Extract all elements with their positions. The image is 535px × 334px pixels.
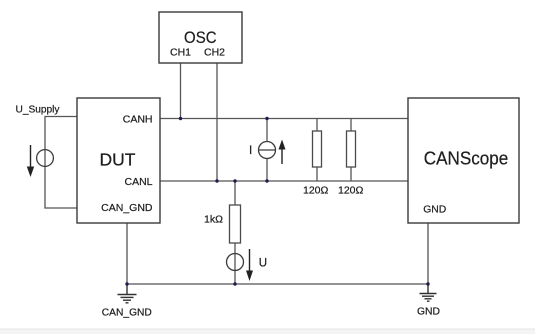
wire DUT CAN_GND pin to rail bbox=[126, 223, 128, 284]
svg-text:120Ω: 120Ω bbox=[338, 185, 364, 197]
svg-text:OSC: OSC bbox=[184, 28, 217, 47]
junction node I/CANL bbox=[265, 179, 268, 182]
current source I (circle with bar) bbox=[259, 142, 276, 159]
arrow I direction (up) bbox=[279, 140, 286, 165]
svg-text:CANL: CANL bbox=[124, 176, 152, 188]
svg-text:I: I bbox=[249, 145, 252, 157]
svg-text:CH2: CH2 bbox=[204, 47, 225, 59]
svg-text:GND: GND bbox=[423, 204, 446, 216]
box DUT bbox=[77, 98, 160, 223]
svg-text:CANH: CANH bbox=[123, 114, 153, 126]
wire CH1 to CANH bbox=[180, 63, 182, 119]
ground CAN_GND symbol bbox=[118, 284, 137, 303]
junction node I/CANH bbox=[265, 117, 268, 120]
svg-text:DUT: DUT bbox=[100, 150, 136, 170]
junction node U/rail bbox=[233, 282, 236, 285]
resistor R1 120ohm bbox=[313, 119, 322, 182]
resistor R3 1kohm bbox=[230, 205, 241, 243]
svg-text:GND: GND bbox=[417, 306, 440, 318]
wire current source branch upper bbox=[266, 119, 268, 142]
resistor R2 120ohm bbox=[347, 119, 356, 182]
junction node DUT/rail bbox=[125, 282, 128, 285]
wire CANH net (horizontal) bbox=[160, 118, 408, 120]
wire current source branch lower bbox=[266, 159, 268, 182]
wire CANScope GND pin to rail bbox=[427, 223, 429, 284]
svg-text:CAN_GND: CAN_GND bbox=[101, 202, 153, 214]
arrow U_Supply direction (down) bbox=[27, 145, 34, 177]
box OSC oscilloscope bbox=[159, 12, 242, 63]
svg-text:CANScope: CANScope bbox=[424, 149, 509, 169]
voltmeter U (circle on wire) bbox=[227, 254, 244, 271]
svg-text:120Ω: 120Ω bbox=[303, 185, 329, 197]
wire 1k branch lower bbox=[234, 243, 236, 284]
svg-text:CAN_GND: CAN_GND bbox=[102, 306, 152, 318]
ground GND symbol bbox=[420, 284, 437, 301]
box CANScope bbox=[408, 98, 519, 223]
wire 1k branch upper bbox=[234, 181, 236, 205]
wire CH2 to CANL bbox=[216, 63, 218, 181]
svg-text:U: U bbox=[259, 258, 267, 270]
arrow U direction (down) bbox=[246, 249, 253, 281]
junction node CH2/CANL bbox=[215, 179, 218, 182]
junction node CH1/CANH bbox=[179, 117, 182, 120]
svg-text:CH1: CH1 bbox=[170, 47, 191, 59]
junction node 1k/CANL bbox=[233, 179, 236, 182]
wire U_Supply top segment bbox=[45, 117, 77, 151]
svg-text:U_Supply: U_Supply bbox=[16, 104, 61, 116]
wire ground rail bbox=[127, 283, 428, 285]
wire CANL net (horizontal) bbox=[160, 180, 408, 182]
svg-text:1kΩ: 1kΩ bbox=[204, 214, 223, 226]
wire U_Supply bottom segment bbox=[45, 150, 77, 208]
junction node CANScope/rail bbox=[426, 282, 429, 285]
voltage source U_Supply (circle on wire) bbox=[37, 150, 54, 167]
